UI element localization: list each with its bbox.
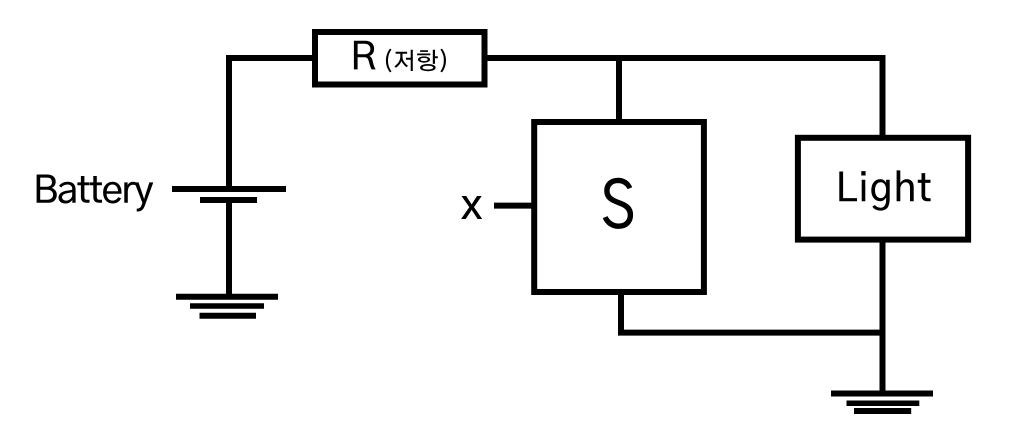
ground (light side), bottom bar: [854, 408, 911, 414]
wire: Light bottom pin down to ground: [880, 240, 886, 391]
battery positive plate (long): [172, 186, 286, 192]
wire: resistor right lead across top to Light branch, down to Light top pin: [487, 58, 883, 141]
resistor R (box body): [315, 32, 485, 85]
ground (battery side), bottom bar: [200, 313, 257, 319]
wire: S block bottom pin down and across to Light bottom branch: [621, 291, 883, 333]
node x (input label): [461, 196, 482, 219]
label "Light": [839, 170, 930, 210]
battery negative plate (short): [200, 197, 257, 203]
resistor label "(저항)" (Korean: resistance): [386, 49, 446, 73]
label "S": [603, 178, 633, 229]
light L (box body): [798, 138, 968, 240]
block S (switch/sensor box): [534, 122, 704, 292]
battery label "Battery": [37, 175, 154, 212]
wire: x input lead to S block left pin: [494, 203, 534, 209]
wire: top node junction down to S block top pin: [616, 55, 622, 125]
wire: battery positive terminal up to node, across to resistor R left lead: [229, 58, 312, 189]
ground (battery side), top bar: [176, 294, 278, 300]
ground (light side), middle bar: [847, 401, 920, 407]
ground (battery side), middle bar: [190, 303, 264, 309]
resistor label "R": [354, 41, 376, 70]
wire: battery negative terminal down to ground: [226, 200, 232, 295]
ground (light side), top bar: [831, 391, 933, 397]
